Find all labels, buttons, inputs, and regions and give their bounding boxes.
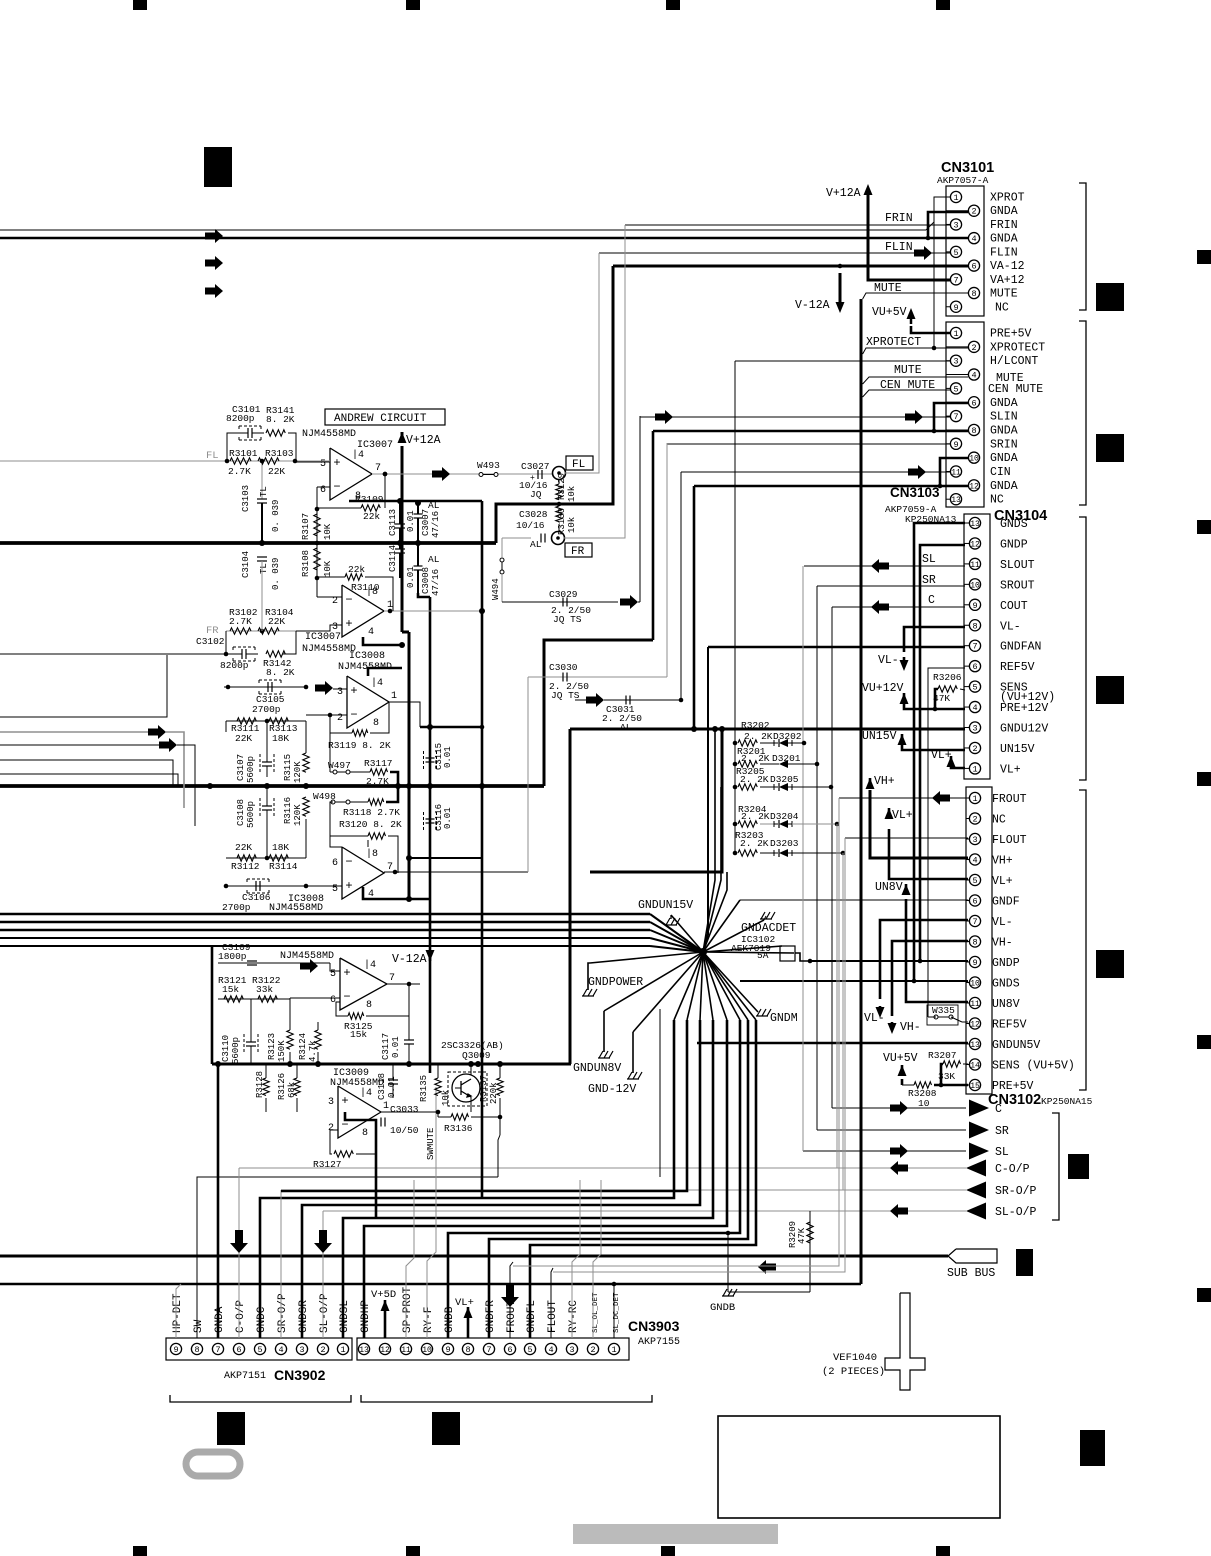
svg-text:+: + bbox=[530, 474, 535, 483]
wire GNDC drop+bus thick bbox=[260, 1020, 674, 1338]
svg-text:7: 7 bbox=[972, 917, 977, 927]
svg-text:10: 10 bbox=[970, 581, 980, 590]
svg-text:5A: 5A bbox=[757, 950, 769, 961]
svg-text:FL: FL bbox=[572, 459, 585, 471]
svg-text:MUTE: MUTE bbox=[894, 364, 922, 377]
svg-text:SL-O/P: SL-O/P bbox=[319, 1293, 331, 1333]
svg-text:JQ TS: JQ TS bbox=[553, 614, 582, 625]
wire FR jack to FRIN rail bbox=[564, 225, 625, 538]
resistor R3136 bbox=[451, 1114, 469, 1120]
CN3103 pin 11 bbox=[946, 471, 950, 473]
wire U1 output row bbox=[372, 473, 553, 475]
svg-text:VL-: VL- bbox=[992, 916, 1013, 929]
svg-text:VL+: VL+ bbox=[931, 749, 952, 762]
svg-text:7: 7 bbox=[972, 642, 977, 652]
svg-text:CN3903: CN3903 bbox=[628, 1318, 680, 1334]
brackets right side bbox=[1079, 183, 1086, 310]
svg-text:5600p: 5600p bbox=[246, 801, 256, 828]
svg-text:2700p: 2700p bbox=[252, 704, 281, 715]
wire C-O/P drop bbox=[238, 1168, 240, 1338]
svg-text:10: 10 bbox=[970, 980, 980, 989]
svg-text:RY-F: RY-F bbox=[423, 1307, 435, 1333]
svg-text:13: 13 bbox=[951, 496, 961, 505]
svg-text:2: 2 bbox=[320, 1345, 325, 1355]
svg-text:VH+: VH+ bbox=[874, 775, 895, 788]
svg-text:3: 3 bbox=[972, 724, 977, 734]
svg-text:NJM4558MD: NJM4558MD bbox=[302, 644, 356, 655]
svg-text:GNDUN8V: GNDUN8V bbox=[573, 1062, 621, 1075]
CN3103 pin 13 bbox=[946, 498, 950, 500]
wire SLIN row bbox=[640, 416, 950, 418]
wire GNDU12V row thick bbox=[570, 728, 965, 731]
svg-text:MUTE: MUTE bbox=[990, 288, 1018, 301]
CN3104 pin 11 bbox=[964, 563, 969, 565]
svg-text:2. 2K: 2. 2K bbox=[741, 811, 770, 822]
CN3103 pin 12 bbox=[946, 484, 968, 486]
wire SP-PROT drop bbox=[406, 1180, 414, 1338]
svg-text:7: 7 bbox=[215, 1345, 220, 1355]
svg-text:4: 4 bbox=[278, 1345, 283, 1355]
svg-text:W497: W497 bbox=[328, 760, 351, 771]
wire R3127 feedback bbox=[330, 1130, 338, 1154]
svg-text:22K: 22K bbox=[268, 466, 285, 477]
svg-text:+: + bbox=[350, 684, 357, 698]
svg-text:0. 039: 0. 039 bbox=[271, 558, 281, 590]
svg-text:UN15V: UN15V bbox=[862, 730, 897, 743]
svg-text:9: 9 bbox=[173, 1345, 178, 1355]
svg-text:C-O/P: C-O/P bbox=[235, 1300, 247, 1333]
svg-text:3: 3 bbox=[569, 1345, 574, 1355]
svg-text:0.01: 0.01 bbox=[443, 746, 453, 768]
svg-text:15k: 15k bbox=[350, 1029, 367, 1040]
wire GNDA row 486 thick bbox=[694, 485, 940, 488]
svg-text:V+12A: V+12A bbox=[406, 434, 441, 447]
grey pill mark bbox=[186, 1452, 240, 1476]
svg-text:VL+: VL+ bbox=[992, 875, 1013, 888]
svg-text:10/16: 10/16 bbox=[516, 520, 545, 531]
svg-text:CEN MUTE: CEN MUTE bbox=[988, 383, 1043, 396]
svg-text:SUB BUS: SUB BUS bbox=[947, 1267, 995, 1280]
svg-text:7: 7 bbox=[953, 275, 958, 285]
CN3902 pin 2 bbox=[317, 1343, 328, 1354]
svg-text:7: 7 bbox=[389, 973, 395, 984]
svg-text:2.7K: 2.7K bbox=[228, 466, 251, 477]
svg-text:C3033: C3033 bbox=[390, 1104, 419, 1115]
svg-text:R3109: R3109 bbox=[355, 494, 384, 505]
svg-text:6: 6 bbox=[330, 995, 336, 1006]
svg-text:COUT: COUT bbox=[1000, 600, 1028, 613]
svg-text:120K: 120K bbox=[293, 761, 303, 783]
resistor R3107 vertical bbox=[314, 514, 320, 536]
CN3104 pin 4 bbox=[964, 706, 969, 708]
svg-text:22k: 22k bbox=[348, 564, 365, 575]
svg-text:GNDS: GNDS bbox=[992, 978, 1020, 991]
svg-text:5: 5 bbox=[972, 876, 977, 886]
svg-text:R3124: R3124 bbox=[298, 1033, 308, 1060]
svg-text:FR: FR bbox=[571, 546, 585, 558]
svg-text:IC3007: IC3007 bbox=[305, 632, 341, 643]
svg-text:UN8V: UN8V bbox=[992, 998, 1020, 1011]
wire SW drop bbox=[197, 1177, 498, 1338]
CN3102 pin 2 bbox=[966, 818, 969, 820]
jack FL bbox=[553, 467, 566, 480]
wire GNDA row 431 thick bbox=[653, 430, 934, 433]
svg-text:8: 8 bbox=[971, 426, 976, 436]
svg-text:8. 2K: 8. 2K bbox=[266, 667, 295, 678]
svg-text:5: 5 bbox=[257, 1345, 262, 1355]
svg-text:GNDB: GNDB bbox=[710, 1302, 735, 1314]
svg-text:47K: 47K bbox=[797, 1227, 807, 1244]
svg-text:5600p: 5600p bbox=[231, 1037, 241, 1064]
CN3903 pin 9 bbox=[442, 1343, 453, 1354]
svg-text:GNDP: GNDP bbox=[992, 957, 1020, 970]
wire thick rail 1064 bbox=[212, 1063, 571, 1066]
svg-text:1: 1 bbox=[953, 193, 958, 203]
svg-text:FL: FL bbox=[206, 450, 219, 462]
svg-text:5: 5 bbox=[953, 248, 958, 258]
resistor R3137 vertical bbox=[497, 1078, 503, 1096]
CN3104 pin 8 bbox=[964, 624, 969, 626]
svg-text:R3108: R3108 bbox=[301, 550, 311, 577]
transistor Q3009 bbox=[448, 1072, 487, 1106]
svg-text:2700p: 2700p bbox=[222, 902, 251, 913]
wire C-O/P row bbox=[239, 1167, 966, 1169]
CN3102 pin 4 bbox=[966, 859, 969, 861]
CN3903 pin 3 bbox=[566, 1343, 577, 1354]
svg-text:−: − bbox=[345, 593, 352, 607]
svg-text:SW: SW bbox=[193, 1319, 205, 1333]
svg-text:13: 13 bbox=[970, 520, 980, 529]
diode output rails bbox=[836, 824, 838, 1168]
svg-text:4: 4 bbox=[972, 856, 977, 866]
svg-text:5: 5 bbox=[972, 683, 977, 693]
svg-text:NJM4558MD: NJM4558MD bbox=[302, 429, 356, 440]
svg-text:SR: SR bbox=[922, 574, 936, 587]
CN3902 pin 7 bbox=[212, 1343, 223, 1354]
wire thick L to diode cluster bbox=[590, 729, 722, 872]
resistors R3111 R3113 row bbox=[226, 720, 306, 722]
svg-text:8: 8 bbox=[373, 718, 379, 729]
svg-text:R3126: R3126 bbox=[277, 1073, 287, 1100]
SUB BUS tag bbox=[948, 1249, 997, 1263]
svg-text:6: 6 bbox=[507, 1345, 512, 1355]
svg-text:2: 2 bbox=[332, 596, 338, 607]
CN3903 pin 2 bbox=[587, 1343, 598, 1354]
CN3102 pin 15 bbox=[966, 1084, 969, 1086]
wire GNDSL drop+bus thick bbox=[343, 1020, 713, 1338]
grey bar bottom bbox=[573, 1524, 778, 1544]
svg-text:+: + bbox=[341, 1094, 348, 1108]
svg-text:5600p: 5600p bbox=[246, 756, 256, 783]
svg-text:FRIN: FRIN bbox=[885, 212, 913, 225]
capacitor C3115 bbox=[424, 751, 437, 769]
svg-text:+: + bbox=[333, 456, 340, 470]
svg-text:SENS (VU+5V): SENS (VU+5V) bbox=[992, 1060, 1075, 1073]
svg-text:6: 6 bbox=[972, 662, 977, 672]
svg-text:C3007: C3007 bbox=[421, 509, 431, 536]
svg-text:NJM4558MD: NJM4558MD bbox=[280, 951, 334, 962]
wire REF5V pin6 bbox=[928, 668, 965, 1017]
CN3903 pin 5 bbox=[524, 1343, 535, 1354]
svg-text:220k: 220k bbox=[489, 1082, 499, 1104]
wire U5 output bbox=[387, 983, 420, 985]
capacitor C3108 bbox=[260, 798, 274, 818]
CN3103 pin 4 bbox=[946, 374, 968, 376]
svg-text:C3028: C3028 bbox=[519, 509, 548, 520]
CN3101 pin 4 bbox=[946, 237, 968, 239]
resistor R3118 bbox=[368, 799, 384, 805]
connector CN3902 bbox=[166, 1338, 352, 1360]
wire VA-12 row pin6 thick bbox=[613, 265, 968, 268]
capacitor C3031 row bbox=[586, 693, 604, 707]
frame tick bottom bbox=[133, 1546, 147, 1556]
svg-text:+: + bbox=[345, 879, 352, 893]
CN3903 pin 12 bbox=[379, 1343, 390, 1354]
svg-text:2.7K: 2.7K bbox=[229, 616, 252, 627]
svg-text:D3204: D3204 bbox=[770, 811, 799, 822]
op-amp U2 IC3007b bbox=[342, 585, 384, 637]
CN3102 pin 6 bbox=[966, 900, 969, 902]
svg-text:SL: SL bbox=[995, 1146, 1009, 1159]
svg-text:C3113: C3113 bbox=[388, 509, 398, 536]
svg-text:NJM4558MD: NJM4558MD bbox=[269, 903, 323, 914]
svg-text:5: 5 bbox=[527, 1345, 532, 1355]
svg-text:+: + bbox=[345, 617, 352, 631]
svg-text:9: 9 bbox=[953, 303, 958, 313]
svg-text:GNDA: GNDA bbox=[214, 1306, 226, 1333]
resistor R3125 bbox=[348, 1013, 364, 1019]
svg-text:4: 4 bbox=[972, 703, 977, 713]
resistor R3135 vertical bbox=[435, 1078, 441, 1096]
wire GNDA pin10-12 thick bbox=[940, 458, 968, 486]
wire FLOUT vertical link bbox=[553, 838, 845, 1272]
svg-text:AKP7151: AKP7151 bbox=[224, 1371, 266, 1382]
CN3903 pin 10 bbox=[421, 1343, 432, 1354]
wire U1 inputs bbox=[295, 461, 330, 463]
svg-text:JQ: JQ bbox=[530, 489, 542, 500]
svg-text:R3119 8. 2K: R3119 8. 2K bbox=[328, 740, 391, 751]
svg-text:SR-O/P: SR-O/P bbox=[277, 1293, 289, 1333]
wire XPROT row bbox=[0, 229, 926, 231]
wire R3209 vertical bbox=[809, 1211, 811, 1292]
svg-text:VEF1040: VEF1040 bbox=[833, 1352, 877, 1364]
resistor R3130 bbox=[556, 506, 562, 522]
svg-text:4: 4 bbox=[971, 234, 976, 244]
CN3101 pin 7 bbox=[946, 278, 950, 280]
svg-text:22K: 22K bbox=[235, 842, 252, 853]
CN3903 pin 7 bbox=[483, 1343, 494, 1354]
svg-text:12: 12 bbox=[970, 1021, 980, 1030]
wire FROUT drop bbox=[510, 1262, 513, 1338]
svg-text:SLIN: SLIN bbox=[990, 411, 1018, 424]
svg-text:GNDUN5V: GNDUN5V bbox=[992, 1039, 1040, 1052]
svg-text:JQ TS: JQ TS bbox=[551, 690, 580, 701]
resistors R3112 R3114 row bbox=[226, 857, 306, 859]
svg-text:1: 1 bbox=[611, 1345, 616, 1355]
svg-text:GNDFR: GNDFR bbox=[485, 1300, 497, 1333]
wire GNDFAN row thick bbox=[708, 646, 965, 649]
svg-text:8: 8 bbox=[972, 621, 977, 631]
svg-text:SLOUT: SLOUT bbox=[1000, 559, 1035, 572]
wire GNDB ground stub bbox=[727, 1233, 729, 1292]
svg-text:8200p: 8200p bbox=[220, 660, 249, 671]
vertical rails through diode zone bbox=[693, 486, 696, 729]
svg-text:VH+: VH+ bbox=[992, 855, 1013, 868]
svg-text:PRE+5V: PRE+5V bbox=[990, 328, 1032, 341]
svg-text:2: 2 bbox=[328, 1123, 334, 1134]
svg-text:XPROTECT: XPROTECT bbox=[866, 336, 921, 349]
capacitor C3114 bbox=[395, 548, 405, 550]
wire U2 output bbox=[384, 610, 482, 612]
svg-text:6: 6 bbox=[236, 1345, 241, 1355]
CN3103 pin 6 bbox=[946, 401, 968, 403]
svg-text:2.7K: 2.7K bbox=[366, 776, 389, 787]
wire GNDSR drop+bus thick bbox=[302, 1020, 700, 1338]
svg-text:11: 11 bbox=[401, 1346, 411, 1355]
svg-text:10k: 10k bbox=[567, 517, 577, 533]
svg-text:C3027: C3027 bbox=[521, 461, 550, 472]
connector CN3102 bbox=[966, 787, 992, 1094]
capacitor C3116 bbox=[424, 812, 437, 830]
svg-text:10k: 10k bbox=[567, 486, 577, 502]
svg-text:12: 12 bbox=[380, 1346, 390, 1355]
wire R3137 down bbox=[498, 1135, 500, 1177]
svg-text:GNDFAN: GNDFAN bbox=[1000, 641, 1041, 654]
svg-text:GNDB: GNDB bbox=[444, 1306, 456, 1333]
CN3902 pin 6 bbox=[233, 1343, 244, 1354]
ANDREW CIRCUIT box bbox=[325, 409, 445, 425]
svg-text:+: + bbox=[343, 966, 350, 980]
svg-text:CIN: CIN bbox=[990, 466, 1011, 479]
svg-text:8: 8 bbox=[194, 1345, 199, 1355]
svg-text:C3103: C3103 bbox=[241, 485, 251, 512]
wire CN3101 pin1 vertical to XPROTECT bbox=[934, 197, 950, 348]
svg-text:13: 13 bbox=[359, 1346, 369, 1355]
svg-text:C3108: C3108 bbox=[236, 799, 246, 826]
resistor R3124 vertical bbox=[315, 1030, 321, 1049]
CN3103 pin 2 bbox=[946, 346, 968, 348]
resistor R3205 + diode D3205 bbox=[733, 785, 738, 790]
vertical signal rails mid-right bbox=[802, 566, 804, 1151]
svg-text:FLIN: FLIN bbox=[885, 241, 913, 254]
wire U4 output bbox=[384, 871, 528, 873]
wire RY-F drop from SWMUTE bbox=[427, 1087, 436, 1338]
svg-text:1: 1 bbox=[340, 1345, 345, 1355]
svg-text:SRIN: SRIN bbox=[990, 438, 1018, 451]
CN3104 pin 3 bbox=[964, 727, 969, 729]
svg-text:C3110: C3110 bbox=[221, 1035, 231, 1062]
CN3102 pin 14 bbox=[966, 1064, 969, 1066]
CN3903 pin 11 bbox=[400, 1343, 411, 1354]
wire thick 727 row bbox=[420, 726, 482, 729]
resistor R3201 + diode D3201 bbox=[733, 762, 738, 767]
svg-text:GNDSL: GNDSL bbox=[339, 1300, 351, 1333]
CN3903 pin 1 bbox=[608, 1343, 619, 1354]
capacitor C3118 bbox=[388, 1079, 398, 1081]
resistor R3108 vertical bbox=[314, 548, 320, 570]
wire SL-O/P row bbox=[323, 1210, 966, 1212]
svg-text:33k: 33k bbox=[256, 984, 273, 995]
CN3902 pin 9 bbox=[170, 1343, 181, 1354]
resistor R3128 vertical bbox=[263, 1078, 269, 1096]
wire row 858 bbox=[409, 857, 482, 859]
svg-text:W494: W494 bbox=[491, 578, 501, 600]
wire thick rail y543 bbox=[0, 541, 496, 545]
wire GNDF row bbox=[740, 899, 968, 901]
svg-text:10k: 10k bbox=[441, 1090, 451, 1106]
svg-text:REF5V: REF5V bbox=[1000, 661, 1035, 674]
wire SL_OL_DET drop bbox=[593, 1180, 601, 1338]
svg-text:C: C bbox=[928, 594, 935, 607]
svg-text:GNDUN15V: GNDUN15V bbox=[638, 899, 693, 912]
resistor R3142b bbox=[266, 651, 285, 657]
wire FLOUT drop bbox=[551, 1268, 553, 1338]
svg-text:1: 1 bbox=[972, 794, 977, 804]
svg-text:R3107: R3107 bbox=[301, 513, 311, 540]
capacitor C3113 bbox=[395, 523, 405, 525]
svg-text:R3137: R3137 bbox=[479, 1075, 489, 1102]
wire GNDB drop+bus thick bbox=[448, 1020, 740, 1338]
svg-text:SL: SL bbox=[922, 553, 936, 566]
resistor R3119 bbox=[352, 730, 368, 736]
resistor R3204 + diode D3204 bbox=[733, 822, 738, 827]
svg-text:SR: SR bbox=[995, 1125, 1009, 1138]
CN3902 pin 1 bbox=[337, 1343, 348, 1354]
CN3102 pin 9 bbox=[966, 961, 969, 963]
svg-text:3: 3 bbox=[337, 687, 343, 698]
CN3102 pin 13 bbox=[966, 1043, 969, 1045]
svg-text:|4: |4 bbox=[360, 1087, 372, 1099]
svg-text:AL: AL bbox=[620, 722, 632, 733]
svg-text:R3103: R3103 bbox=[265, 448, 294, 459]
svg-text:6: 6 bbox=[332, 858, 338, 869]
svg-text:9: 9 bbox=[972, 601, 977, 611]
CN3102 pin 8 bbox=[966, 941, 969, 943]
svg-text:ANDREW CIRCUIT: ANDREW CIRCUIT bbox=[334, 413, 427, 425]
svg-text:3: 3 bbox=[299, 1345, 304, 1355]
FROUT fat arrow bbox=[501, 1284, 519, 1307]
svg-text:1: 1 bbox=[953, 329, 958, 339]
wire VA+12 pin7 bbox=[868, 198, 950, 280]
svg-text:GNDA: GNDA bbox=[990, 480, 1018, 493]
svg-text:10/50: 10/50 bbox=[390, 1125, 419, 1136]
svg-text:VU+5V: VU+5V bbox=[872, 306, 907, 319]
svg-text:|4: |4 bbox=[364, 959, 376, 971]
wire C3104 branch bbox=[257, 556, 267, 558]
CN3102 pin 11 bbox=[966, 1002, 969, 1004]
svg-text:W493: W493 bbox=[477, 460, 500, 471]
CN3102 pin 12 bbox=[966, 1023, 969, 1025]
svg-text:C3030: C3030 bbox=[549, 662, 578, 673]
wire FLOUT row bbox=[845, 837, 968, 839]
svg-text:7: 7 bbox=[486, 1345, 491, 1355]
svg-text:GNDA: GNDA bbox=[990, 233, 1018, 246]
wire GNDP row cn3102 bbox=[810, 960, 968, 962]
CN3101 pin 1 bbox=[946, 196, 950, 198]
svg-text:V-12A: V-12A bbox=[392, 953, 427, 966]
svg-text:|4: |4 bbox=[371, 677, 383, 689]
wire HP-DET drop bbox=[176, 1284, 181, 1338]
svg-text:3: 3 bbox=[953, 357, 958, 367]
page arrows top-left bbox=[205, 229, 223, 243]
CN3103 pin 3 bbox=[946, 360, 950, 362]
svg-text:TL: TL bbox=[259, 563, 269, 574]
CN3102 pin 7 bbox=[966, 920, 969, 922]
svg-text:C3102: C3102 bbox=[196, 636, 225, 647]
svg-text:1: 1 bbox=[383, 1101, 389, 1112]
wire bus SW vertical bbox=[659, 1009, 661, 1177]
CN3103 pin 7 bbox=[946, 415, 950, 417]
